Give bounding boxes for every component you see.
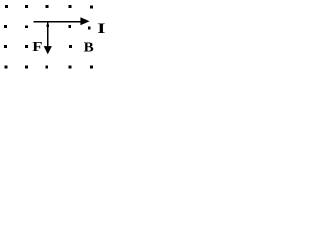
field dot R1C1 bbox=[5, 5, 8, 8]
field dot R1C5 bbox=[90, 5, 93, 8]
force stem bbox=[47, 22, 48, 47]
field dot R4C4 bbox=[68, 65, 71, 68]
field dot R2C5 bbox=[88, 26, 91, 29]
field dot R2C2 bbox=[25, 25, 28, 28]
wire (current conductor) bbox=[33, 21, 82, 23]
field dot R1C4 bbox=[68, 5, 71, 8]
svg-text:F: F bbox=[32, 39, 42, 54]
field dot R4C1 bbox=[4, 65, 7, 68]
field dot R2C4 bbox=[68, 25, 71, 28]
force arrowhead bbox=[44, 46, 52, 54]
field dot R4C2 bbox=[25, 65, 28, 68]
physics diagram: current-carrying wire in magnetic field (dots = B out of page) bbox=[0, 0, 108, 74]
svg-text:B: B bbox=[84, 40, 94, 55]
current arrowhead bbox=[80, 17, 89, 25]
field dot R3C2 bbox=[25, 45, 28, 48]
field dot R2C1 bbox=[4, 25, 7, 28]
label F bbox=[32, 39, 42, 54]
field dot R1C3 bbox=[45, 5, 48, 8]
label B bbox=[84, 40, 94, 55]
label I bbox=[97, 20, 105, 36]
field dot R2C3 (on force stem) bbox=[46, 25, 49, 28]
field dot R4C5 bbox=[90, 65, 93, 68]
field dot R1C2 bbox=[25, 5, 28, 8]
field dot R3C1 bbox=[4, 45, 7, 48]
field dot R4C3 bbox=[45, 65, 48, 68]
field dot R3C4 bbox=[69, 45, 72, 48]
svg-text:I: I bbox=[97, 20, 105, 36]
